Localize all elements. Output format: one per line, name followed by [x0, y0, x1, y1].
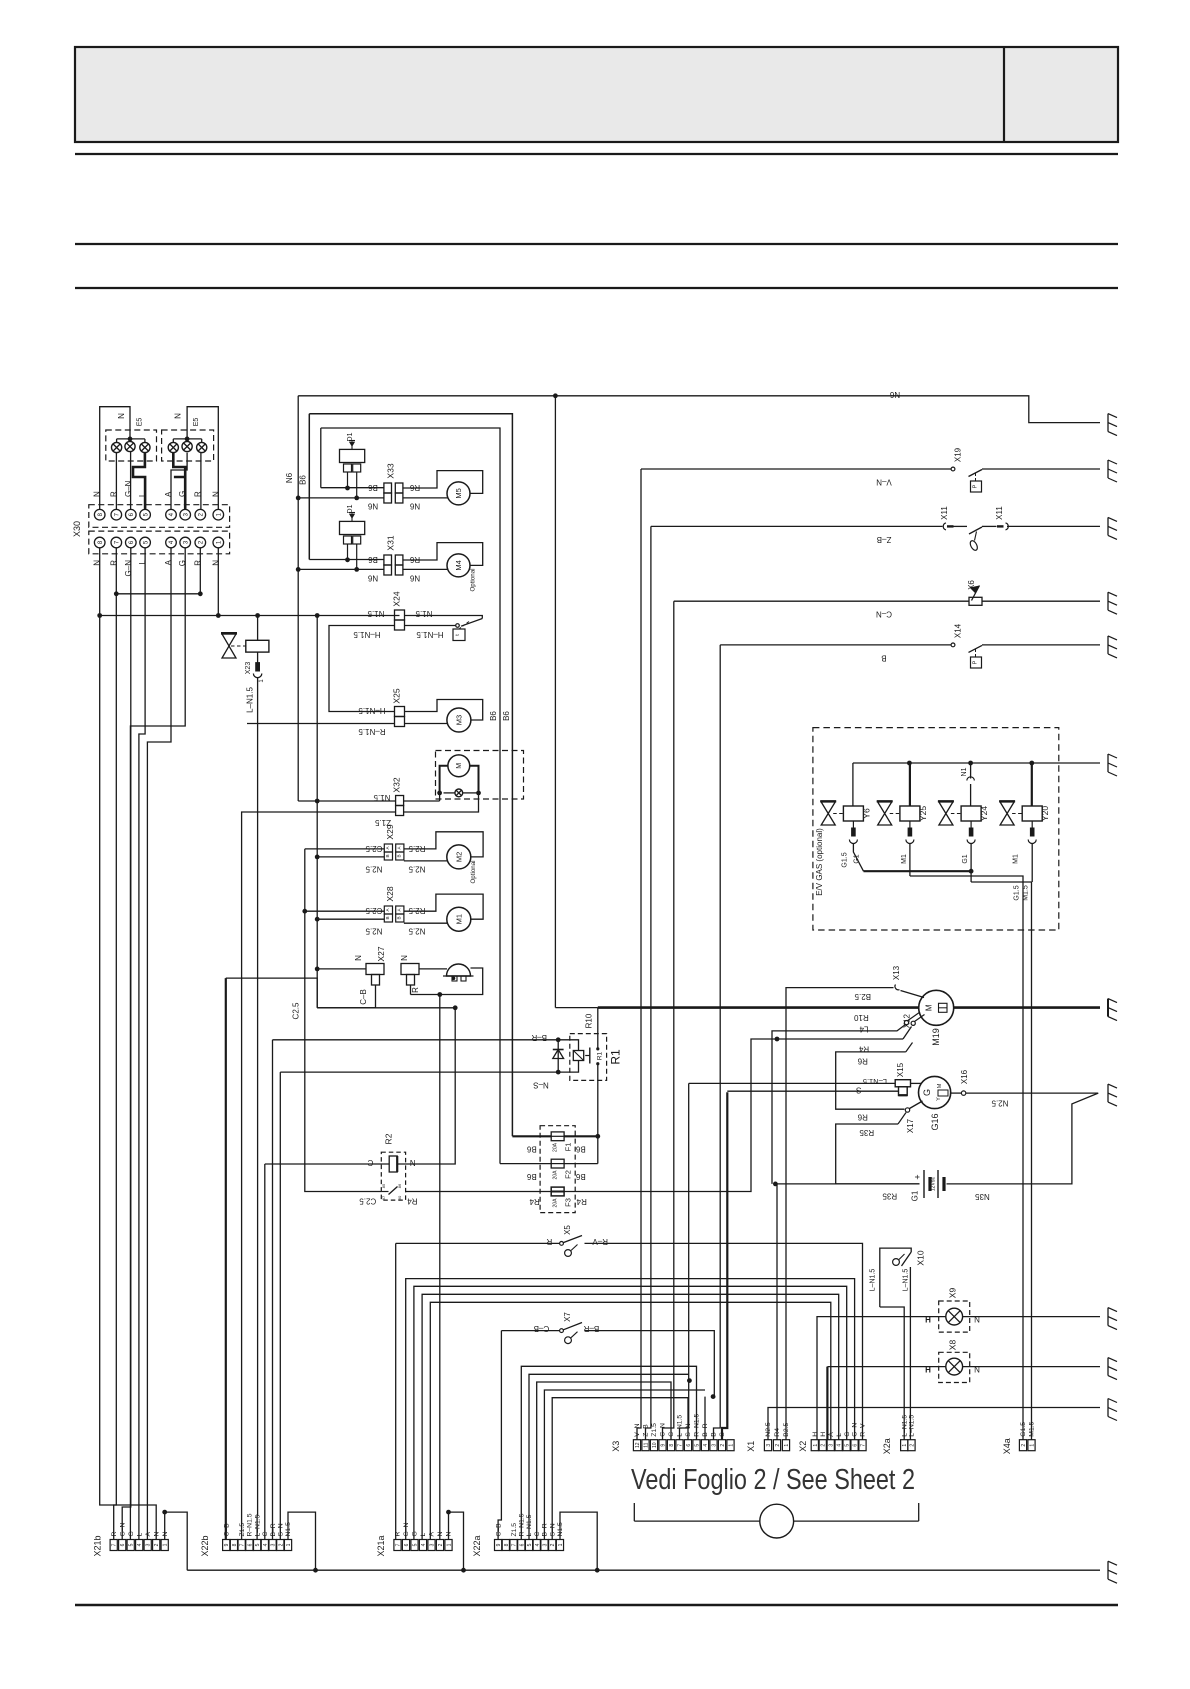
svg-text:F2: F2 — [564, 1170, 573, 1179]
wire R10 thick M19 to ground — [953, 1006, 1100, 1009]
fan motor M — [448, 755, 470, 777]
wire N to X27 left — [317, 968, 366, 970]
connector X16 — [961, 1091, 965, 1095]
svg-text:6: 6 — [247, 1543, 253, 1546]
wire X28 to M1 loop — [404, 894, 483, 919]
svg-text:N6: N6 — [409, 502, 420, 511]
svg-text:G1: G1 — [962, 854, 969, 863]
fuse F2 — [551, 1159, 564, 1168]
svg-text:2: 2 — [154, 1543, 160, 1546]
svg-text:N6: N6 — [409, 574, 420, 583]
svg-text:1: 1 — [902, 1444, 908, 1447]
svg-text:X19: X19 — [954, 447, 963, 462]
wire L-N1.5 X23 down to X22b pin5 — [256, 678, 259, 1540]
svg-text:N: N — [174, 413, 183, 419]
svg-text:N: N — [93, 491, 102, 497]
wire H-N1.5 switch to X24 — [405, 625, 456, 627]
connector X22b — [223, 1540, 230, 1551]
svg-text:M4: M4 — [454, 560, 463, 570]
svg-text:6: 6 — [686, 1444, 692, 1447]
svg-text:A: A — [145, 1532, 152, 1537]
svg-text:1: 1 — [286, 1543, 292, 1546]
X30 lower pin 1 — [213, 537, 224, 548]
wire N6 left drop — [297, 396, 299, 801]
X30 lower pin 2 — [195, 537, 206, 548]
wire B6 to X33 — [321, 487, 384, 489]
svg-text:S–N: S–N — [685, 1423, 692, 1436]
wire A X2 to X21a pin5 — [430, 1302, 831, 1539]
connector X21a — [394, 1540, 401, 1551]
svg-text:F3: F3 — [564, 1198, 573, 1207]
wire N2.5 vertical distribution — [316, 616, 318, 1008]
lamp X9 dashed box — [939, 1301, 970, 1332]
wire R6 X33 to M5 loop — [403, 471, 483, 494]
lamp H3 — [140, 442, 150, 452]
valve link dashed — [231, 645, 246, 647]
wire C2.5 R2 to F3 — [406, 1191, 551, 1193]
svg-text:2: 2 — [1021, 1444, 1027, 1447]
svg-text:B–R: B–R — [583, 1324, 599, 1333]
svg-text:C: C — [534, 1532, 541, 1537]
svg-text:N: N — [354, 955, 363, 961]
wire R10 relay to thick line — [597, 1008, 599, 1049]
wire R6 X31 to M4 loop — [403, 543, 483, 566]
svg-text:Vedi Foglio 2 / See Sheet 2: Vedi Foglio 2 / See Sheet 2 — [631, 1464, 915, 1496]
svg-text:M5: M5 — [454, 488, 463, 498]
X30 lower pin 4 — [166, 537, 177, 548]
svg-text:G–N: G–N — [852, 1423, 859, 1437]
wire lamp H2 to X30 pin6 — [130, 452, 132, 510]
wire N6 X31 to M4 — [403, 568, 449, 570]
svg-text:1: 1 — [729, 1444, 735, 1447]
svg-text:11: 11 — [644, 1442, 650, 1447]
connector X27 left tab — [366, 964, 384, 975]
svg-text:M1: M1 — [1013, 854, 1020, 864]
svg-text:N1.5: N1.5 — [415, 609, 432, 618]
wire Y20 down to X4a pin2 — [1031, 844, 1033, 883]
svg-text:N2.5: N2.5 — [365, 865, 382, 874]
coil X23 — [246, 640, 269, 652]
svg-text:H–N1.5: H–N1.5 — [416, 630, 444, 639]
fuse box dashed — [540, 1126, 575, 1213]
fuse F3 — [551, 1187, 564, 1196]
battery G1 — [923, 1170, 925, 1198]
ground V-N — [1108, 460, 1117, 482]
wire N35 long — [775, 1183, 919, 1185]
wire R10 thick to M19 — [598, 1006, 919, 1009]
svg-text:E5: E5 — [137, 418, 144, 427]
wire N6 to X31 — [298, 568, 384, 570]
svg-text:R10: R10 — [854, 1013, 869, 1022]
svg-text:3: 3 — [542, 1543, 548, 1546]
svg-text:X10: X10 — [915, 1250, 925, 1265]
svg-text:X24: X24 — [392, 591, 402, 606]
svg-text:M1.5: M1.5 — [1022, 885, 1029, 901]
svg-text:G1: G1 — [911, 1190, 920, 1201]
wire B-R from X22b pin7 to R1 — [273, 1040, 579, 1051]
wire L to X21b pin4 — [139, 548, 145, 1540]
svg-text:5: 5 — [255, 1543, 261, 1546]
svg-text:C2.5: C2.5 — [359, 1197, 376, 1206]
motor M19 — [919, 990, 954, 1025]
sheet bracket — [633, 1503, 635, 1521]
connector X2a — [901, 1440, 908, 1451]
svg-text:1: 1 — [447, 1543, 453, 1546]
wire N6 X33 to M5 — [403, 497, 449, 499]
wire B2.5 from X1 pin3 to X13 — [786, 988, 894, 1440]
wire lamp H6 to X30 pin2 — [200, 453, 202, 510]
fan wiring left — [440, 766, 448, 793]
svg-text:N6: N6 — [367, 502, 378, 511]
gas bus2 — [910, 876, 1023, 1440]
thermocouple symbol — [975, 532, 977, 541]
svg-text:G: G — [922, 1089, 932, 1096]
svg-text:E5: E5 — [193, 418, 200, 427]
R2 switch blade — [381, 1191, 388, 1193]
svg-text:N1.5: N1.5 — [367, 609, 384, 618]
svg-text:3: 3 — [430, 1543, 436, 1546]
wire Y20 feed — [1031, 763, 1033, 806]
svg-text:H–N1.5: H–N1.5 — [358, 706, 386, 715]
svg-text:G: G — [844, 1431, 851, 1436]
svg-text:R35: R35 — [882, 1192, 897, 1201]
svg-text:X22a: X22a — [472, 1535, 482, 1556]
svg-text:H: H — [925, 1316, 931, 1325]
wire B-R X7 to X3 pin4 — [585, 1331, 715, 1397]
diode across R1 coil — [557, 1040, 559, 1072]
connector X2 — [811, 1440, 818, 1451]
R1 pins — [596, 1047, 599, 1050]
X30 lower pin 3 — [180, 537, 191, 548]
connector X24 — [395, 610, 405, 620]
Y24 coil pin — [970, 821, 972, 828]
X30 upper pin 1 — [213, 509, 224, 520]
svg-text:10: 10 — [652, 1442, 658, 1448]
svg-text:X23: X23 — [245, 662, 252, 675]
svg-text:X2a: X2a — [882, 1438, 892, 1454]
flue fan dashed box — [436, 751, 524, 800]
wire N2.5 X28 to M1 — [404, 922, 447, 924]
wire X23 to pin — [257, 652, 259, 663]
connector X29 — [384, 844, 392, 852]
wire lamp H3 to X30 pin5 (thick) — [133, 453, 145, 510]
svg-text:N2.5: N2.5 — [991, 1099, 1008, 1108]
svg-text:Z1.5: Z1.5 — [239, 1523, 246, 1537]
svg-text:4: 4 — [137, 1543, 143, 1546]
svg-text:G1.5: G1.5 — [1014, 885, 1021, 900]
Y20 coil pin — [1031, 821, 1033, 828]
wire R from X27 to X21a pin6 — [410, 985, 412, 995]
svg-text:C–B: C–B — [223, 1523, 230, 1537]
svg-text:+: + — [913, 1174, 923, 1179]
svg-text:B–R: B–R — [542, 1523, 549, 1536]
wire C2.5 to X29 — [305, 848, 385, 850]
svg-text:L–N1.5: L–N1.5 — [903, 1269, 910, 1292]
wire R4 F3 to X12 — [564, 1039, 903, 1192]
connector X15 — [895, 1080, 910, 1087]
svg-text:X14: X14 — [954, 623, 963, 638]
svg-text:G–N: G–N — [119, 1522, 126, 1536]
svg-text:N: N — [437, 1532, 444, 1537]
wire R to X21b pin1 — [114, 548, 117, 1540]
fan wiring right — [470, 766, 479, 793]
svg-text:N: N — [974, 1366, 980, 1375]
wire right lamp tops tie — [173, 438, 201, 440]
lamp X8 dashed box — [939, 1352, 970, 1382]
svg-text:9: 9 — [661, 1444, 667, 1447]
wire R-N1.5 X25 to X22b — [247, 723, 395, 725]
lamp H1 — [112, 442, 122, 452]
svg-text:R6: R6 — [857, 1057, 868, 1066]
svg-text:M: M — [937, 1083, 943, 1088]
svg-text:R4: R4 — [407, 1197, 418, 1206]
switch X19 — [951, 467, 955, 471]
wire S drop thick to X3 pin2 — [722, 1092, 727, 1440]
X30 upper pin 5 — [140, 509, 151, 520]
svg-text:M19: M19 — [931, 1028, 941, 1046]
wire H-N1.5 loop X24 to X25 — [329, 626, 395, 712]
ground R10 — [1108, 999, 1117, 1021]
svg-text:X2: X2 — [798, 1441, 808, 1452]
svg-text:G1.5: G1.5 — [1020, 1422, 1027, 1437]
wire X29 to M2 loop — [404, 832, 483, 857]
svg-text:L–N1.5: L–N1.5 — [254, 1514, 261, 1536]
R2 coil — [389, 1156, 397, 1172]
svg-text:L–N1.5: L–N1.5 — [677, 1415, 684, 1437]
svg-text:7: 7 — [396, 1543, 402, 1546]
svg-text:D1: D1 — [347, 432, 354, 441]
svg-text:Y6: Y6 — [861, 808, 871, 819]
svg-text:8: 8 — [669, 1444, 675, 1447]
svg-text:P: P — [973, 660, 979, 664]
svg-text:1: 1 — [1030, 1444, 1036, 1447]
thermostat sensor box — [460, 622, 470, 629]
svg-text:R–N1.5: R–N1.5 — [694, 1413, 701, 1436]
svg-text:12: 12 — [635, 1442, 641, 1448]
svg-text:X12: X12 — [903, 1013, 912, 1028]
svg-text:R2: R2 — [383, 1133, 393, 1144]
X30 lower pin 8 — [94, 537, 105, 548]
svg-text:20A: 20A — [553, 1170, 559, 1180]
wire X1 pin2 to N35 — [776, 1184, 778, 1440]
svg-text:B–R: B–R — [531, 1033, 547, 1042]
wire N6 to X33 — [298, 497, 384, 499]
wire R to X5 switch — [396, 1242, 560, 1244]
svg-text:G16: G16 — [930, 1113, 940, 1130]
svg-text:H: H — [925, 1366, 931, 1375]
wire X10 frame — [880, 1248, 911, 1307]
ground B — [1108, 636, 1117, 658]
wire L-N1.5 drop to X3 pin7 — [680, 1083, 689, 1439]
svg-text:P: P — [973, 484, 979, 488]
svg-text:X28: X28 — [385, 886, 395, 901]
ground C-N — [1108, 592, 1117, 614]
svg-text:X13: X13 — [892, 965, 901, 980]
switch X7 — [560, 1329, 564, 1333]
wire C-N row — [674, 600, 969, 602]
svg-text:N: N — [400, 955, 409, 961]
wire G to X21b pin3 — [130, 548, 185, 1540]
svg-text:86: 86 — [397, 1183, 402, 1188]
connector X30 lower row dashed box — [89, 531, 230, 554]
svg-text:6: 6 — [120, 1543, 126, 1546]
connector X13 — [895, 985, 900, 990]
wire N feed to left lamps — [100, 407, 130, 510]
connector X4a — [1019, 1440, 1026, 1451]
svg-text:L: L — [136, 1533, 143, 1537]
svg-text:R4: R4 — [774, 1428, 781, 1437]
svg-text:S–N: S–N — [278, 1523, 285, 1536]
wire left lamp tops tie — [117, 438, 145, 440]
wire Z-B drop to X3 pin11 — [646, 526, 651, 1439]
wire N to R2 coil — [317, 1007, 455, 1009]
wire lamp H4 to X30 pin3 (thick) — [173, 453, 185, 477]
svg-text:R–N1.5: R–N1.5 — [358, 727, 386, 736]
svg-text:9: 9 — [496, 1543, 502, 1546]
svg-text:C–N: C–N — [660, 1423, 667, 1437]
wire H to X9 — [817, 1317, 946, 1440]
svg-text:Y: Y — [936, 1097, 942, 1101]
svg-text:A: A — [828, 1432, 835, 1437]
wire X21b pin7 to ground bus — [165, 1512, 188, 1570]
svg-text:4: 4 — [837, 1444, 843, 1447]
svg-text:R: R — [109, 491, 118, 497]
wire R tie X30 pins 7-2 — [116, 593, 200, 595]
svg-text:N: N — [410, 1158, 416, 1167]
wire N-S from X22b pin8 to R1 — [280, 1061, 578, 1073]
svg-text:R: R — [546, 1237, 552, 1246]
wire X21a pin7 to bus — [449, 1512, 464, 1570]
svg-text:2: 2 — [550, 1543, 556, 1546]
svg-text:L: L — [836, 1433, 843, 1437]
motor M1 — [447, 907, 471, 931]
svg-text:F1: F1 — [564, 1143, 573, 1152]
svg-text:4: 4 — [263, 1543, 269, 1546]
svg-text:N: N — [974, 1316, 980, 1325]
wire N2.5 X1 pin1 to ground — [768, 1408, 1100, 1440]
wire B6 thick to F1 — [512, 1135, 551, 1137]
svg-text:C: C — [367, 1158, 373, 1167]
ground N6 — [1108, 414, 1117, 436]
wire X23 feed — [257, 616, 259, 641]
wire V-N drop to X3 pin12 — [637, 469, 641, 1440]
wire Y25 feed — [909, 763, 911, 806]
svg-text:12Vdc: 12Vdc — [931, 1176, 937, 1191]
gas valve Y20 — [1000, 802, 1014, 825]
wire N2.5 to X28 — [317, 918, 384, 920]
R1 coil — [573, 1051, 583, 1061]
header rule 2 — [75, 243, 1118, 245]
thermostat switch blade — [461, 619, 482, 627]
svg-text:8: 8 — [232, 1543, 238, 1546]
relay R2 dashed box — [381, 1152, 405, 1200]
svg-text:X30: X30 — [72, 521, 82, 537]
svg-text:B2.5: B2.5 — [783, 1422, 790, 1436]
svg-text:C–N: C–N — [876, 610, 892, 619]
svg-text:M1: M1 — [901, 854, 908, 864]
svg-text:2: 2 — [278, 1543, 284, 1546]
wire R6 X12 to X17 — [836, 1052, 906, 1109]
wire Y6 feed — [852, 763, 854, 806]
wire N6 top bus — [298, 396, 1100, 423]
svg-text:S: S — [719, 1432, 726, 1437]
wire C-B to X7 switch — [501, 1330, 559, 1332]
svg-text:Z1.5: Z1.5 — [511, 1523, 518, 1537]
svg-text:C–B: C–B — [495, 1523, 502, 1537]
svg-text:G: G — [128, 1531, 135, 1536]
wire N to X21b pin6 — [100, 548, 157, 1540]
svg-text:M3: M3 — [455, 715, 464, 725]
wire H to X8 thick — [826, 1367, 828, 1440]
wire Z1.5 X32 to X22b pin3 — [242, 812, 396, 1540]
svg-text:Optional: Optional — [470, 568, 477, 591]
svg-text:X27: X27 — [376, 946, 386, 961]
svg-text:N: N — [211, 491, 220, 497]
diode module D1 (upper) — [340, 449, 365, 462]
svg-text:X17: X17 — [906, 1118, 915, 1133]
valve symbol at X23 — [222, 634, 236, 646]
svg-text:Z–B: Z–B — [643, 1424, 650, 1437]
header title bar — [75, 47, 1118, 142]
connector X17 — [905, 1108, 909, 1112]
speaker — [447, 964, 471, 976]
wire B row — [720, 644, 951, 646]
motor M3 — [447, 708, 471, 732]
svg-text:N1: N1 — [961, 767, 968, 776]
svg-text:X22b: X22b — [200, 1535, 210, 1556]
svg-text:R: R — [193, 491, 202, 497]
svg-text:B2.5: B2.5 — [854, 992, 871, 1001]
svg-text:C: C — [262, 1532, 269, 1537]
svg-text:R6: R6 — [857, 1113, 868, 1122]
svg-text:N: N — [153, 1532, 160, 1537]
lamp X9 — [946, 1308, 963, 1325]
wire G16 to X16 — [951, 1092, 961, 1094]
svg-text:L: L — [138, 492, 147, 497]
wire X8 to ground — [963, 1366, 1100, 1368]
wire B6 to X31 — [309, 559, 384, 561]
svg-text:N2.5: N2.5 — [365, 927, 382, 936]
Y25 coil pin — [909, 821, 911, 828]
wire N2.5 slant to battery minus — [947, 1093, 1099, 1184]
lamp H5 — [182, 441, 192, 451]
svg-text:X25: X25 — [392, 688, 402, 703]
wire L X2 to X21a pin4 — [422, 1294, 839, 1539]
wire N2.5 X29 to M2 — [404, 860, 447, 862]
svg-text:X16: X16 — [960, 1069, 969, 1084]
svg-text:R10: R10 — [585, 1013, 594, 1028]
svg-text:7: 7 — [112, 1543, 118, 1546]
svg-text:X3: X3 — [611, 1441, 621, 1452]
svg-text:A: A — [164, 491, 173, 497]
R1 contact — [589, 1048, 591, 1064]
svg-text:B6: B6 — [575, 1172, 585, 1181]
svg-text:L–N1.5: L–N1.5 — [901, 1415, 908, 1437]
svg-text:C: C — [668, 1432, 675, 1437]
X23 pin bar — [256, 663, 260, 671]
wire Z1.5 return from fan box — [404, 793, 479, 812]
fuse F1 — [551, 1132, 564, 1141]
svg-text:B: B — [711, 1432, 718, 1437]
wire C X22a pin6 to X3 pin8 — [537, 1382, 671, 1540]
X30 upper pin 2 — [195, 509, 206, 520]
svg-text:3: 3 — [712, 1444, 718, 1447]
connector X1 — [764, 1440, 771, 1451]
svg-text:2: 2 — [821, 1444, 827, 1447]
svg-text:Z1.5: Z1.5 — [651, 1423, 658, 1437]
svg-text:M2: M2 — [454, 852, 463, 862]
wire lamp H1 to X30 pin7 — [115, 453, 117, 510]
